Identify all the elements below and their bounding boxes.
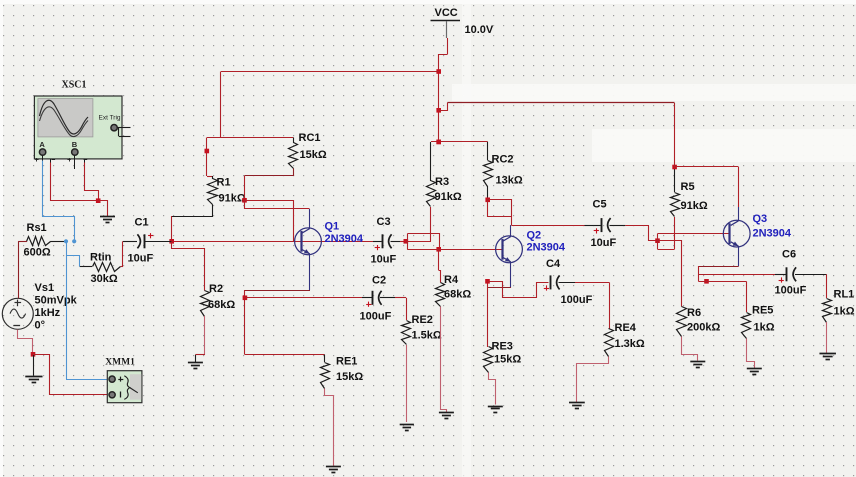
- svg-text:10uF: 10uF: [128, 253, 154, 265]
- svg-text:2N3904: 2N3904: [753, 228, 792, 240]
- svg-text:1kHz: 1kHz: [35, 307, 61, 319]
- svg-text:R3: R3: [435, 176, 449, 188]
- svg-text:C4: C4: [546, 258, 561, 270]
- svg-text:Q2: Q2: [527, 230, 542, 242]
- svg-text:10uF: 10uF: [591, 237, 617, 249]
- svg-text:15kΩ: 15kΩ: [336, 371, 363, 383]
- svg-text:C1: C1: [135, 217, 149, 229]
- svg-text:68kΩ: 68kΩ: [444, 289, 471, 301]
- svg-text:Q3: Q3: [753, 213, 768, 225]
- svg-text:R5: R5: [681, 181, 695, 193]
- svg-text:10uF: 10uF: [371, 254, 397, 266]
- svg-text:0°: 0°: [35, 320, 46, 332]
- svg-text:B: B: [72, 140, 78, 149]
- svg-text:RC2: RC2: [492, 154, 514, 166]
- svg-text:RE5: RE5: [752, 305, 773, 317]
- svg-text:XMM1: XMM1: [105, 357, 135, 367]
- svg-text:30kΩ: 30kΩ: [91, 273, 118, 285]
- svg-text:100uF: 100uF: [360, 311, 392, 323]
- svg-text:91kΩ: 91kΩ: [435, 191, 462, 203]
- svg-text:91kΩ: 91kΩ: [681, 200, 708, 212]
- svg-text:R1: R1: [217, 177, 231, 189]
- svg-text:91kΩ: 91kΩ: [219, 193, 246, 205]
- svg-text:600Ω: 600Ω: [24, 247, 51, 259]
- svg-text:Ext Trig: Ext Trig: [99, 115, 121, 122]
- svg-text:15kΩ: 15kΩ: [300, 149, 327, 161]
- svg-text:Vs1: Vs1: [35, 282, 55, 294]
- svg-text:RL1: RL1: [834, 289, 855, 301]
- svg-text:100uF: 100uF: [775, 285, 807, 297]
- svg-text:RE1: RE1: [336, 356, 357, 368]
- svg-text:10.0V: 10.0V: [465, 24, 494, 36]
- svg-text:68kΩ: 68kΩ: [208, 299, 235, 311]
- svg-text:RC1: RC1: [299, 132, 321, 144]
- svg-text:A: A: [39, 140, 45, 149]
- svg-text:R4: R4: [444, 274, 459, 286]
- svg-text:100uF: 100uF: [561, 294, 593, 306]
- svg-text:1kΩ: 1kΩ: [754, 322, 775, 334]
- svg-text:2N3904: 2N3904: [325, 233, 364, 245]
- svg-text:R2: R2: [209, 283, 223, 295]
- svg-text:RE4: RE4: [615, 322, 637, 334]
- svg-text:Rs1: Rs1: [27, 222, 47, 234]
- svg-text:200kΩ: 200kΩ: [687, 322, 720, 334]
- svg-text:50mVpk: 50mVpk: [35, 295, 78, 307]
- svg-text:RE2: RE2: [412, 314, 433, 326]
- svg-text:C2: C2: [372, 275, 386, 287]
- svg-text:2N3904: 2N3904: [527, 242, 566, 254]
- svg-text:13kΩ: 13kΩ: [496, 175, 523, 187]
- svg-text:15kΩ: 15kΩ: [494, 354, 521, 366]
- svg-text:XSC1: XSC1: [62, 80, 87, 91]
- svg-text:1.5kΩ: 1.5kΩ: [412, 330, 442, 342]
- svg-text:Rtin: Rtin: [90, 252, 112, 264]
- svg-text:C6: C6: [782, 249, 796, 261]
- svg-text:RE3: RE3: [492, 341, 513, 353]
- svg-text:Q1: Q1: [325, 221, 340, 233]
- svg-text:C5: C5: [593, 199, 607, 211]
- svg-text:1kΩ: 1kΩ: [834, 306, 855, 318]
- svg-text:VCC: VCC: [435, 7, 458, 19]
- svg-text:1.3kΩ: 1.3kΩ: [615, 338, 645, 350]
- svg-text:C3: C3: [377, 216, 391, 228]
- svg-text:R6: R6: [687, 307, 701, 319]
